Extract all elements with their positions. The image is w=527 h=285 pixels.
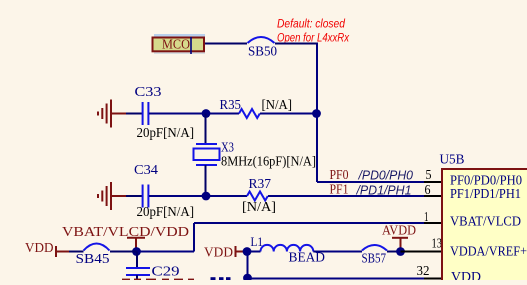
power symbol VBAT/VLCD/VDD — [62, 225, 189, 248]
svg-text:VDD: VDD — [204, 246, 233, 261]
svg-text:/PD0/PH0: /PD0/PH0 — [358, 168, 414, 183]
wire corner up — [193, 223, 195, 252]
ground G2 (C34) — [98, 182, 126, 210]
wire bottom to chip pin 32 — [248, 278, 442, 280]
svg-text:5: 5 — [426, 168, 432, 183]
svg-text:C29: C29 — [152, 265, 180, 280]
wire C34 to node — [149, 195, 206, 197]
pin stubs (black) — [424, 182, 441, 279]
wire SB45 to VBAT node — [110, 251, 137, 253]
junction node VDD/L1 — [243, 247, 252, 256]
wire PF0 row to chip pin 5 — [317, 181, 424, 183]
ground G1 (C33) — [98, 100, 126, 128]
svg-text:SB57: SB57 — [362, 252, 387, 267]
svg-text:20pF[N/A]: 20pF[N/A] — [137, 204, 195, 219]
svg-text:[N/A]: [N/A] — [242, 200, 276, 215]
svg-text:VDD: VDD — [25, 241, 54, 256]
junction node AVDD — [396, 247, 405, 256]
partial text below (cut off) — [211, 277, 231, 280]
svg-text:SB45: SB45 — [76, 252, 110, 267]
wire MCO to SB50 — [205, 43, 247, 45]
svg-text:VBAT/VLCD: VBAT/VLCD — [450, 215, 521, 230]
svg-text:13: 13 — [432, 237, 443, 252]
svg-text:U5B: U5B — [440, 153, 465, 168]
svg-text:SB50: SB50 — [248, 45, 277, 60]
wire R35 to vertical — [260, 113, 317, 115]
solder bridge SB50 — [248, 37, 275, 43]
port VDD right — [204, 246, 243, 261]
wire VDD node down — [247, 252, 249, 279]
wire SB50 to corner — [275, 43, 318, 45]
svg-text:L1: L1 — [251, 234, 264, 249]
solder bridge SB45 — [84, 244, 110, 251]
svg-text:C33: C33 — [135, 85, 162, 100]
svg-text:VDD: VDD — [451, 270, 481, 280]
svg-text:R35: R35 — [220, 98, 242, 113]
wire VDD to SB45 — [69, 251, 84, 253]
partial value text C29 (cut off) — [122, 279, 194, 280]
svg-text:32: 32 — [417, 264, 430, 279]
wire to chip pin 1 — [194, 222, 424, 224]
junction node bottom VDD — [243, 274, 252, 283]
wire node down to X3 — [205, 114, 207, 145]
svg-text:20pF[N/A]: 20pF[N/A] — [137, 125, 195, 140]
svg-text:AVDD: AVDD — [382, 223, 416, 238]
svg-text:MCO: MCO — [162, 37, 190, 52]
resistor R35 — [239, 109, 260, 118]
port MCO highlight strip — [154, 34, 205, 37]
svg-text:8MHz(16pF)[N/A]: 8MHz(16pF)[N/A] — [221, 154, 316, 169]
wire ground to C34 — [126, 195, 142, 197]
svg-text:Default: closed: Default: closed — [277, 17, 345, 31]
capacitor C33 — [143, 102, 149, 125]
wire ground to C33 — [126, 113, 142, 115]
svg-text:BEAD: BEAD — [289, 251, 326, 266]
svg-text:R37: R37 — [249, 177, 272, 192]
capacitor C29 — [136, 252, 138, 269]
wire node to R37 — [206, 195, 247, 197]
svg-text:C34: C34 — [134, 163, 158, 178]
wire X3 down to C34 node — [205, 165, 207, 196]
power symbol AVDD — [382, 223, 416, 248]
wire C33 to node — [149, 113, 206, 115]
wire R37 to chip pin 6 — [268, 195, 424, 197]
svg-text:VDDA/VREF+: VDDA/VREF+ — [450, 245, 527, 260]
port VDD left — [25, 241, 69, 257]
solder bridge SB57 — [362, 245, 387, 251]
wire VBAT node to corner — [137, 251, 195, 253]
wire AVDD node to chip pin 13 — [401, 251, 442, 253]
junction node C33/X3/R35 — [202, 109, 211, 118]
junction node C34/X3/R37 — [202, 192, 211, 201]
wire vertical SB50 down to PF0 row — [316, 44, 318, 183]
svg-text:PF0: PF0 — [330, 167, 349, 182]
wire node to R35 — [206, 113, 239, 115]
capacitor C34 — [143, 185, 149, 208]
svg-text:PF1/PD1/PH1: PF1/PD1/PH1 — [450, 187, 521, 202]
crystal X3 — [194, 144, 220, 165]
svg-text:PF1: PF1 — [330, 182, 349, 197]
wire L1 to SB57 — [313, 251, 362, 253]
resistor R37 — [247, 192, 268, 201]
wire L1 to node (short) — [247, 251, 261, 253]
svg-text:VBAT/VLCD/VDD: VBAT/VLCD/VDD — [62, 225, 189, 240]
junction node VBAT — [132, 247, 141, 256]
junction node on SB50 vertical — [312, 109, 321, 118]
svg-text:/PD1/PH1: /PD1/PH1 — [356, 183, 412, 198]
wire SB57 to AVDD node — [387, 251, 401, 253]
svg-text:[N/A]: [N/A] — [262, 98, 293, 113]
port MCO — [153, 37, 205, 54]
IC U5B — [440, 153, 527, 285]
